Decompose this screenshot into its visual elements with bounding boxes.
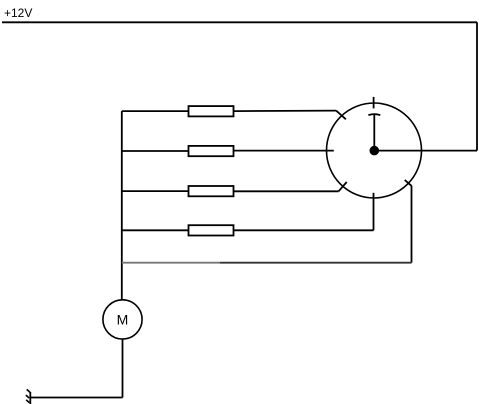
- rotary switch SW1 body: [327, 103, 422, 198]
- switch SW1 wiper arm: [373, 115, 375, 151]
- wire R4 to switch bottom contact: [373, 193, 375, 231]
- resistor R1: [122, 106, 336, 116]
- resistor R2: [122, 146, 334, 156]
- switch SW1 lower-left contact tick: [339, 182, 347, 191]
- wire left bus vertical: [121, 111, 123, 300]
- svg-text:M: M: [117, 311, 129, 327]
- chassis ground hatch 1: [27, 389, 30, 392]
- wire right vertical from +12V rail to switch common: [476, 22, 478, 150]
- resistor R3: [122, 186, 339, 196]
- wire bus to lower-right contact, dark segment: [220, 262, 412, 264]
- motor M1 body: [103, 300, 142, 339]
- chassis ground hatch 3: [26, 400, 29, 403]
- wire +12V top rail: [2, 21, 477, 23]
- switch SW1 lower-right contact tick: [405, 180, 412, 186]
- wire switch common (center dot to right vertical): [374, 150, 477, 152]
- wire bottom horizontal to ground: [30, 397, 122, 399]
- switch SW1 top contact tick: [373, 97, 375, 109]
- chassis ground bar: [29, 392, 31, 404]
- switch SW1 wiper contact bar: [368, 114, 380, 115]
- svg-text:+12V: +12V: [4, 6, 32, 20]
- wire motor bottom to ground run: [122, 339, 124, 398]
- switch SW1 upper-left contact tick: [336, 111, 346, 120]
- switch SW1 center dot: [370, 146, 380, 156]
- chassis ground hatch 2: [26, 395, 29, 398]
- resistor R4: [122, 225, 374, 235]
- wire bus to lower-right contact, light segment: [122, 262, 220, 264]
- wire lower-right contact down: [411, 186, 413, 263]
